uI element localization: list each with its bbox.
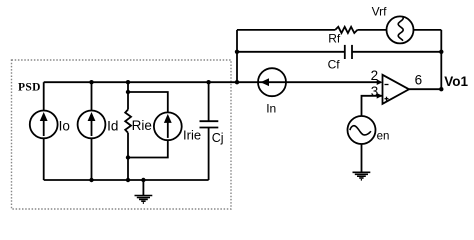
label Irie (183, 128, 201, 143)
wire: non-inverting input to en source (362, 96, 383, 117)
resistor Rf (335, 27, 357, 33)
wire: top feedback rail (left of Rf) (237, 29, 335, 31)
op-amp U1 (377, 75, 409, 104)
wire: en source to ground (361, 144, 363, 172)
svg-text:Cf: Cf (328, 57, 341, 71)
wire: Rie branch lower stub (127, 133, 129, 180)
ground (PSD bottom) (135, 196, 153, 204)
wire: op-amp output to right riser (409, 88, 441, 90)
current source Io (30, 111, 58, 139)
svg-text:Irie: Irie (183, 128, 201, 143)
resistor Rie (125, 110, 131, 133)
label en (377, 131, 390, 143)
pin 6 label (415, 72, 423, 87)
svg-text:Cj: Cj (212, 131, 224, 145)
wire: ground stem on bottom rail (142, 180, 144, 195)
wire: Io branch top (43, 82, 45, 110)
label Id (107, 118, 118, 133)
svg-text:PSD: PSD (18, 82, 41, 94)
PSD dashed enclosure box (12, 60, 232, 209)
svg-text:Rie: Rie (132, 118, 152, 133)
node: junction dots on feedback risers (235, 50, 444, 92)
svg-text:2: 2 (371, 68, 379, 83)
wire: Cf rail (left segment) (237, 51, 344, 53)
node: junction dots on sub-wires and bottom rail (89, 90, 145, 182)
svg-text:Vo1: Vo1 (444, 74, 468, 89)
label In (266, 102, 276, 116)
wire: top feedback rail (Rf to Vrf) (357, 29, 386, 31)
label Rf (328, 32, 341, 46)
wire: Io branch bottom (43, 138, 45, 180)
label Vo1 (444, 74, 468, 89)
wire: Id branch bottom (91, 138, 93, 180)
pin 2 label (371, 68, 379, 83)
svg-text:6: 6 (415, 72, 423, 87)
node: junction dots on main wire (89, 80, 239, 84)
current source Irie (154, 112, 182, 140)
capacitor Cf (345, 45, 352, 59)
label Io (59, 119, 70, 134)
capacitor Cj (200, 121, 219, 127)
wire: top feedback rail (Vrf to right riser) (414, 29, 442, 31)
svg-text:In: In (266, 102, 276, 116)
current source In (on main wire) (258, 68, 286, 96)
svg-text:Rf: Rf (328, 32, 341, 46)
wire: Cj branch top (208, 82, 210, 121)
wire: feedback left vertical riser (236, 30, 238, 82)
wire: main input node (top wire of PSD to op-amp inverting input) (44, 81, 381, 83)
svg-text:Io: Io (59, 119, 70, 134)
wire: feedback right vertical riser (440, 30, 442, 89)
voltage source Vrf (387, 16, 414, 43)
pin 3 label (371, 84, 379, 99)
wire: PSD bottom rail (44, 179, 209, 181)
wire: Id branch top (91, 82, 93, 110)
current source Id (78, 111, 106, 139)
label Rie (132, 118, 152, 133)
svg-text:Id: Id (107, 118, 118, 133)
ground (en source) (353, 172, 371, 180)
wire: Cf rail (right segment) (352, 51, 441, 53)
label Cf (328, 57, 341, 71)
svg-text:en: en (377, 131, 390, 143)
label PSD (18, 82, 41, 94)
label Vrf (372, 4, 388, 18)
label Cj (212, 131, 224, 145)
wire: sub-wire from Irie branch to Rie branch (bottom) (128, 140, 168, 157)
wire: Rie branch upper stub (127, 82, 129, 109)
svg-text:Vrf: Vrf (372, 4, 388, 18)
wire: Cj branch bottom (208, 128, 210, 181)
wire: sub-wire from Rie branch to Irie branch (top) (128, 92, 168, 112)
voltage source en (348, 116, 376, 144)
